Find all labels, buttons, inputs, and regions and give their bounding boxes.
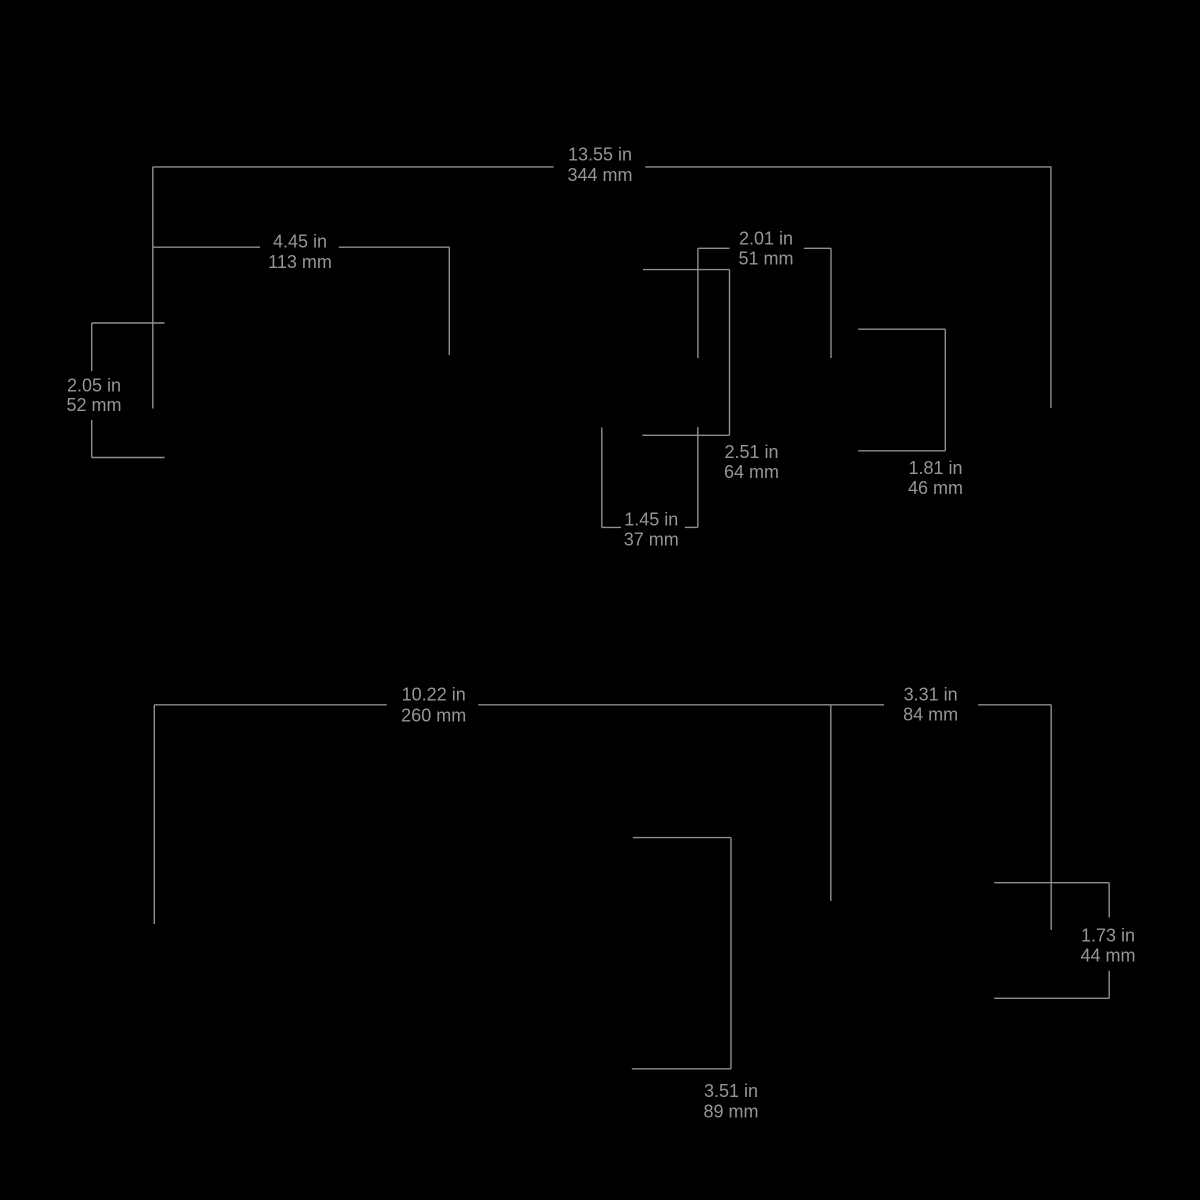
dim 10.22in left extension vertical: [153, 705, 155, 924]
dim 2.01in horizontal line left segment: [698, 247, 730, 249]
svg-text:260 mm: 260 mm: [401, 705, 466, 725]
dim 1.73in bracket top cap: [994, 882, 1109, 884]
label 1.73 in / 44 mm: [1080, 925, 1135, 965]
dim 10.22in/3.31in horizontal line middle segment: [478, 704, 884, 706]
dim 2.51in bracket vertical: [729, 270, 731, 436]
svg-text:3.31 in: 3.31 in: [904, 684, 958, 704]
svg-text:2.05 in: 2.05 in: [67, 375, 121, 395]
label 2.01 in / 51 mm: [738, 228, 793, 268]
dim 4.45in right extension vertical: [448, 247, 450, 355]
dim 1.45in right extension vertical: [697, 427, 699, 527]
dim 1.81in bracket bottom cap: [858, 450, 945, 452]
svg-text:10.22 in: 10.22 in: [402, 684, 466, 704]
svg-text:52 mm: 52 mm: [66, 395, 121, 415]
svg-text:64 mm: 64 mm: [724, 462, 779, 482]
label 1.45 in / 37 mm: [624, 509, 679, 549]
dim 1.73in bracket vertical upper segment: [1108, 883, 1110, 918]
dim 2.05in bracket top cap: [92, 322, 165, 324]
dim 2.01in horizontal line right segment: [804, 247, 831, 249]
svg-text:1.45 in: 1.45 in: [624, 509, 678, 529]
label 3.51 in / 89 mm: [703, 1081, 758, 1122]
dim 2.05in bracket vertical lower segment: [91, 420, 93, 458]
label 4.45 in / 113 mm: [268, 232, 332, 272]
dim 3.31in right extension vertical: [1050, 705, 1052, 930]
dim 1.73in bracket bottom cap: [994, 997, 1109, 999]
dim 2.01in left extension vertical: [697, 248, 699, 358]
svg-text:3.51 in: 3.51 in: [704, 1081, 758, 1101]
label 2.51 in / 64 mm: [724, 442, 779, 482]
svg-text:344 mm: 344 mm: [567, 165, 632, 185]
svg-text:89 mm: 89 mm: [703, 1102, 758, 1122]
svg-text:1.81 in: 1.81 in: [908, 458, 962, 478]
dim 3.51in bracket vertical: [730, 838, 732, 1069]
label 1.81 in / 46 mm: [908, 458, 963, 498]
dim 1.45in bottom line right segment: [685, 526, 698, 528]
dim 13.55in right extension vertical: [1050, 167, 1052, 408]
svg-text:51 mm: 51 mm: [738, 248, 793, 268]
label 10.22 in / 260 mm: [401, 684, 466, 725]
dim 10.22in/3.31in middle extension vertical: [830, 705, 832, 901]
svg-text:37 mm: 37 mm: [624, 530, 679, 550]
dim 10.22in horizontal line left segment: [154, 704, 386, 706]
svg-text:2.51 in: 2.51 in: [724, 442, 778, 462]
dim 1.81in bracket vertical: [944, 329, 946, 451]
dim 13.55in horizontal line right segment: [645, 166, 1051, 168]
dim 4.45in horizontal line left segment: [153, 246, 260, 248]
dim 1.73in bracket vertical lower segment: [1108, 971, 1110, 999]
svg-text:13.55 in: 13.55 in: [568, 144, 632, 164]
dim 3.31in horizontal line right segment: [978, 704, 1051, 706]
label 3.31 in / 84 mm: [903, 684, 958, 724]
dim 4.45in horizontal line right segment: [339, 246, 450, 248]
svg-text:4.45 in: 4.45 in: [273, 232, 327, 252]
label 2.05 in / 52 mm: [66, 375, 121, 415]
dim 13.55in horizontal line left segment: [153, 166, 554, 168]
svg-text:2.01 in: 2.01 in: [739, 228, 793, 248]
svg-text:113 mm: 113 mm: [268, 252, 332, 272]
svg-text:44 mm: 44 mm: [1080, 945, 1135, 965]
dim 2.51in bracket top cap: [643, 269, 730, 271]
svg-text:1.73 in: 1.73 in: [1081, 925, 1135, 945]
svg-text:84 mm: 84 mm: [903, 705, 958, 725]
dim 3.51in bracket bottom cap: [632, 1068, 731, 1070]
dim 1.45in bottom line left segment: [602, 526, 621, 528]
dim 3.51in bracket top cap: [633, 837, 731, 839]
dim 1.81in bracket top cap: [858, 328, 945, 330]
dim 1.45in left extension vertical: [601, 428, 603, 528]
svg-text:46 mm: 46 mm: [908, 478, 963, 498]
dim 2.05in bracket bottom cap: [92, 457, 165, 459]
dim 2.51in bracket bottom cap: [642, 434, 729, 436]
dim 2.01in right extension vertical: [830, 248, 832, 358]
dim 13.55in left extension vertical: [152, 167, 154, 409]
label 13.55 in / 344 mm: [567, 144, 632, 185]
dim 2.05in bracket vertical upper segment: [91, 323, 93, 371]
